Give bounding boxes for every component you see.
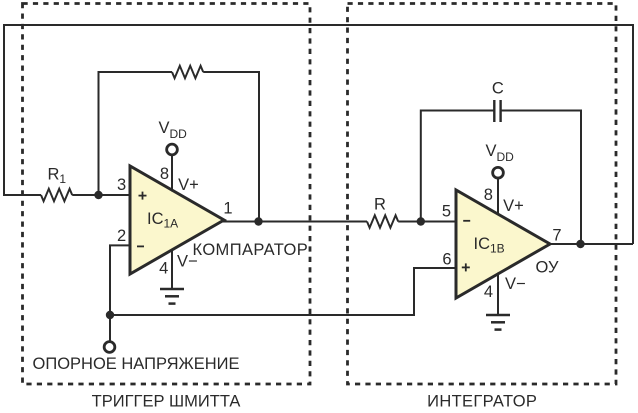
dashed box: Schmitt trigger block <box>23 4 311 385</box>
svg-text:R: R <box>374 196 386 214</box>
svg-text:C: C <box>492 80 504 98</box>
svg-text:8: 8 <box>484 186 493 204</box>
node: junction at IC1A output <box>254 217 262 225</box>
svg-text:V+: V+ <box>503 197 524 215</box>
svg-text:2: 2 <box>117 227 126 245</box>
terminal: reference voltage input circle <box>104 342 115 353</box>
plus sign at IC1B noninverting input <box>462 263 470 271</box>
wire: R1 to IC1A noninverting input <box>72 194 131 196</box>
node: junction at IC1A pin 3 <box>94 191 102 199</box>
op-amp IC1B triangle <box>456 190 550 298</box>
svg-text:ОПОРНОЕ НАПРЯЖЕНИЕ: ОПОРНОЕ НАПРЯЖЕНИЕ <box>33 355 240 373</box>
resistor R1 <box>41 189 72 201</box>
wire: global feedback loop from IC1B output up over the top to R1 <box>4 25 633 244</box>
wire: capacitor loop left vertical and top left <box>421 111 495 221</box>
wire: IC1B pin 4 to ground <box>497 273 499 316</box>
wire: feedback top right and down to IC1A output <box>203 72 259 222</box>
wire: R to IC1B inverting input <box>398 221 457 223</box>
svg-text:1: 1 <box>223 200 232 218</box>
wire: capacitor right side down to IC1B output <box>501 111 581 245</box>
terminal: VDD circle IC1A <box>167 144 178 155</box>
wire: IC1A output to resistor R <box>222 221 367 223</box>
svg-text:ТРИГГЕР ШМИТТА: ТРИГГЕР ШМИТТА <box>92 393 241 411</box>
node: junction at reference rail <box>106 311 114 319</box>
svg-text:ИНТЕГРАТОР: ИНТЕГРАТОР <box>427 393 537 411</box>
wire: IC1A inverting input from reference node <box>110 245 131 341</box>
wire: VDD to IC1A pin 8 <box>171 156 173 192</box>
svg-text:4: 4 <box>159 260 168 278</box>
dashed box: integrator block <box>348 4 617 385</box>
svg-text:6: 6 <box>442 251 451 269</box>
ground symbol IC1B <box>486 315 510 330</box>
svg-text:7: 7 <box>552 226 561 244</box>
resistor: IC1A feedback resistor <box>172 66 203 78</box>
node: junction at IC1B pin 5 <box>417 217 425 225</box>
minus sign at IC1B inverting input <box>463 220 470 222</box>
svg-text:V−: V− <box>505 275 526 293</box>
wire: IC1A feedback left vertical and top <box>99 72 173 194</box>
svg-text:5: 5 <box>442 202 451 220</box>
svg-text:4: 4 <box>484 283 493 301</box>
svg-text:8: 8 <box>160 165 169 183</box>
plus sign at IC1A noninverting input <box>139 192 147 200</box>
terminal: VDD circle IC1B <box>493 167 504 178</box>
svg-text:V+: V+ <box>178 176 199 194</box>
svg-text:КОМПАРАТОР: КОМПАРАТОР <box>193 241 309 259</box>
wire: reference voltage rail to IC1B noninverting input <box>110 268 457 315</box>
wire: VDD to IC1B pin 8 <box>497 179 499 215</box>
svg-text:ОУ: ОУ <box>536 259 559 277</box>
minus sign at IC1A inverting input <box>137 245 144 247</box>
node: junction at IC1B output <box>576 240 584 248</box>
op-amp IC1A triangle <box>130 166 224 274</box>
resistor R <box>367 215 398 227</box>
ground symbol IC1A <box>160 289 184 304</box>
wire: IC1A pin 4 to ground <box>171 249 173 289</box>
svg-text:3: 3 <box>117 176 126 194</box>
wire: IC1B output to right feedback corner <box>548 243 633 245</box>
capacitor C plates <box>494 100 500 122</box>
